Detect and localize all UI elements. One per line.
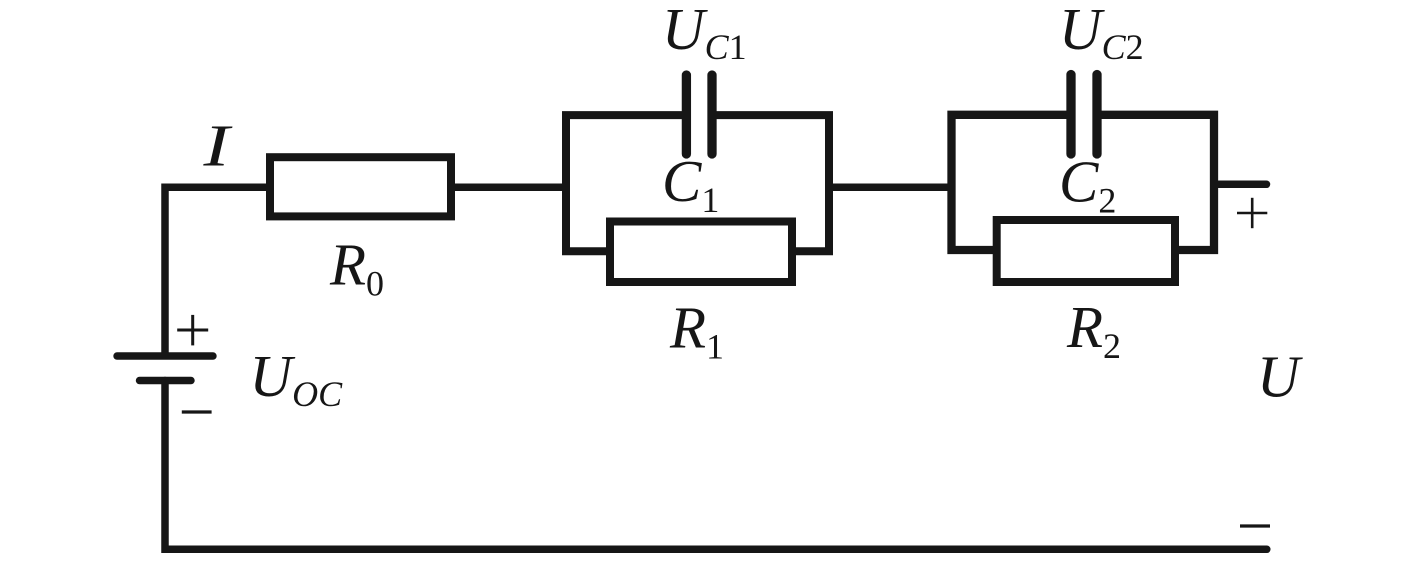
wire: RC pair 2 right frame	[1097, 115, 1214, 250]
wire: main rail left segment + left vertical down to battery	[165, 187, 270, 354]
capacitor C2 right plate	[1092, 75, 1101, 155]
wire: rail from R0 to first RC pair	[455, 183, 566, 191]
resistor R1	[610, 222, 792, 283]
svg-text:I: I	[202, 113, 232, 179]
battery minus sign	[182, 410, 212, 413]
capacitor C1 left plate	[682, 75, 691, 154]
terminal minus sign	[1240, 524, 1270, 527]
resistor R0	[270, 157, 451, 216]
capacitor C1 right plate	[707, 75, 716, 154]
terminal plus sign	[1237, 198, 1267, 228]
svg-text:U: U	[1257, 344, 1303, 410]
wire: RC pair 1 right frame (top-right, right vertical, bottom-right)	[712, 115, 829, 251]
wire: output stub (positive terminal)	[1214, 181, 1267, 189]
wire: RC pair 2 left frame	[952, 115, 1072, 250]
wire: left vertical below battery + bottom rail	[165, 381, 1267, 550]
resistor R2	[997, 220, 1175, 282]
wire: RC pair 1 left frame (top-left, left vertical, bottom-left)	[566, 115, 686, 251]
battery U_OC positive plate	[117, 352, 213, 359]
wire: rail between RC pair 1 and RC pair 2	[829, 183, 952, 191]
capacitor C2 left plate	[1066, 75, 1075, 155]
battery plus sign	[177, 315, 208, 346]
label I (current)	[202, 113, 232, 179]
battery U_OC negative plate	[140, 377, 192, 384]
